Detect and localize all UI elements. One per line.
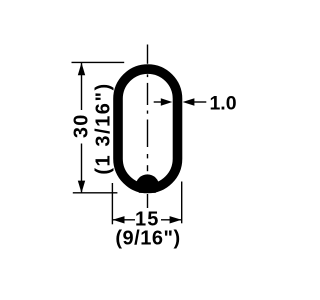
wall thickness arrow outer (pointing left) xyxy=(194,101,206,103)
svg-text:30: 30 xyxy=(71,113,93,138)
extension line bottom (30 dim) xyxy=(73,192,118,194)
arrow left (15 dim) xyxy=(113,216,125,223)
arrow right (15 dim) xyxy=(170,216,182,223)
dimension line 30 (vertical, with text gap) xyxy=(81,63,83,110)
arrow up (30 dim) xyxy=(78,63,85,75)
svg-text:(9/16"): (9/16") xyxy=(115,228,180,250)
wall thickness arrow inner (pointing right) xyxy=(154,101,163,103)
svg-text:(1 3/16"): (1 3/16") xyxy=(93,82,115,174)
centerline (dash-dot) xyxy=(147,45,149,209)
extension line right (15 dim) xyxy=(181,182,183,224)
oval tube profile (stadium outline) xyxy=(118,69,178,188)
extension line top (30 dim) xyxy=(72,61,125,63)
dimension line 15 (horizontal, with text gap) xyxy=(112,219,135,221)
extension line left (15 dim) xyxy=(111,183,113,224)
svg-text:1.0: 1.0 xyxy=(209,93,236,115)
arrow down (30 dim) xyxy=(78,181,85,193)
